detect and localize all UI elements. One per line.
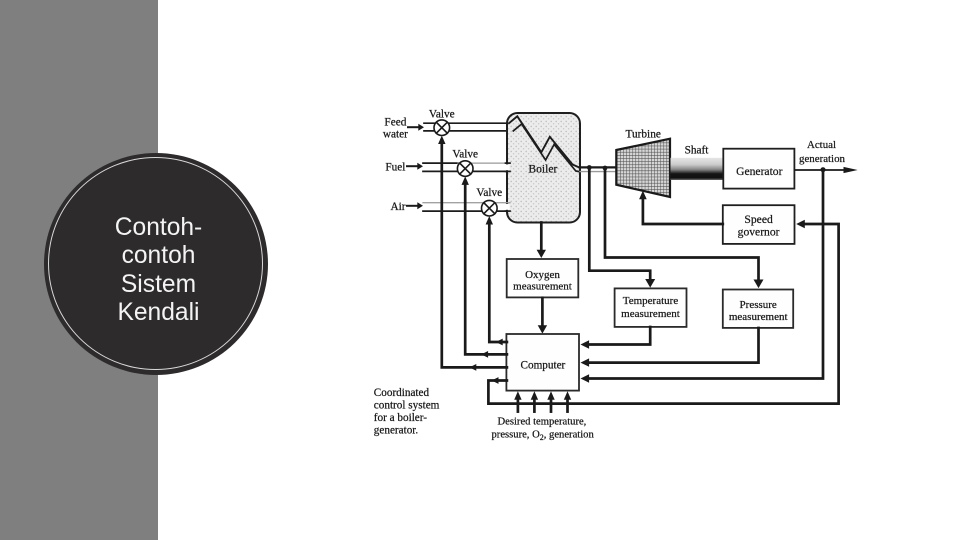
svg-text:generator.: generator. (374, 424, 419, 436)
wire computer to fuel valve (462, 176, 507, 357)
oxygen measurement block (507, 259, 579, 297)
svg-text:Valve: Valve (476, 187, 502, 199)
temperature measurement block (615, 288, 687, 327)
shaft (671, 158, 724, 180)
wire computer to air valve (486, 216, 507, 345)
svg-text:for a boiler-: for a boiler- (374, 412, 427, 424)
svg-text:governor: governor (738, 225, 780, 238)
svg-text:generation: generation (799, 153, 846, 165)
wire pressure measurement to computer (581, 328, 759, 367)
boiler steam coil zigzag (509, 116, 579, 171)
generator U1 (723, 149, 794, 189)
speed governor label (738, 213, 780, 238)
svg-text:Turbine: Turbine (626, 129, 661, 141)
svg-text:Coordinated: Coordinated (374, 387, 430, 399)
wire steam line boiler to turbine (580, 167, 616, 171)
svg-text:Pressure: Pressure (740, 299, 777, 311)
wire air inlet arrow (407, 202, 423, 209)
svg-text:Desired temperature,: Desired temperature, (498, 417, 587, 428)
svg-text:water: water (383, 129, 408, 141)
svg-text:measurement: measurement (621, 308, 680, 320)
wire speed governor to turbine (639, 191, 723, 224)
svg-text:pressure, O2, generation: pressure, O2, generation (492, 430, 595, 443)
node steam tap junction 2 (603, 166, 608, 171)
svg-text:Computer: Computer (521, 359, 566, 371)
wire feed-water pipe (double line to boiler) (424, 123, 514, 131)
svg-text:Air: Air (390, 201, 405, 213)
computer block (506, 334, 579, 391)
svg-text:Fuel: Fuel (385, 161, 405, 173)
node actual generation junction (821, 167, 826, 172)
wire computer to speed governor (generation reference) (488, 220, 838, 404)
node Feed water label (383, 117, 408, 141)
svg-text:Feed: Feed (384, 117, 406, 129)
wire generator output to actual generation (794, 167, 857, 173)
node steam tap junction 1 (587, 165, 592, 170)
speed governor U2 (723, 205, 795, 244)
svg-text:Valve: Valve (429, 108, 455, 120)
valve V2 (fuel) (457, 161, 473, 177)
turbine (616, 139, 670, 197)
pressure measurement block (723, 290, 793, 328)
wire feed-water inlet arrow (408, 124, 424, 131)
wire steam tap 2 to pressure measurement (605, 169, 764, 289)
wire fuel inlet arrow (407, 163, 423, 170)
node desired setpoint label (492, 417, 595, 443)
node Actual generation label (799, 139, 846, 165)
svg-text:Generator: Generator (736, 165, 782, 178)
svg-text:Speed: Speed (744, 213, 773, 226)
pressure measurement label (729, 299, 788, 323)
valve V1 (feed water) (434, 120, 450, 136)
wire fuel pipe entry notch (506, 163, 511, 171)
wire temperature measurement to computer (581, 327, 651, 349)
svg-text:Actual: Actual (807, 139, 836, 151)
svg-text:measurement: measurement (513, 281, 572, 293)
svg-text:Temperature: Temperature (623, 295, 679, 307)
svg-text:Shaft: Shaft (685, 144, 710, 156)
svg-text:control system: control system (374, 400, 440, 412)
svg-text:Oxygen: Oxygen (525, 269, 560, 281)
wire desired setpoint inputs to computer (514, 391, 571, 411)
svg-text:Boiler: Boiler (528, 163, 557, 176)
wire boiler to oxygen measurement (537, 223, 546, 259)
oxygen measurement label (513, 269, 572, 293)
wire oxygen measurement to computer (538, 298, 547, 334)
wire air pipe (double line to boiler) (423, 203, 508, 211)
wire actual generation feedback to computer (581, 170, 824, 383)
valve V3 (air) (482, 200, 498, 216)
wire computer to feed-water valve (438, 136, 507, 371)
svg-text:measurement: measurement (729, 311, 788, 323)
svg-text:Valve: Valve (452, 149, 478, 161)
wire steam tap 1 to temperature measurement (589, 168, 655, 288)
temperature measurement label (621, 295, 680, 320)
wire fuel pipe (double line to boiler) (423, 163, 508, 171)
node figure caption (374, 387, 440, 436)
wire air pipe entry notch (506, 203, 511, 211)
boiler vessel (507, 113, 580, 223)
